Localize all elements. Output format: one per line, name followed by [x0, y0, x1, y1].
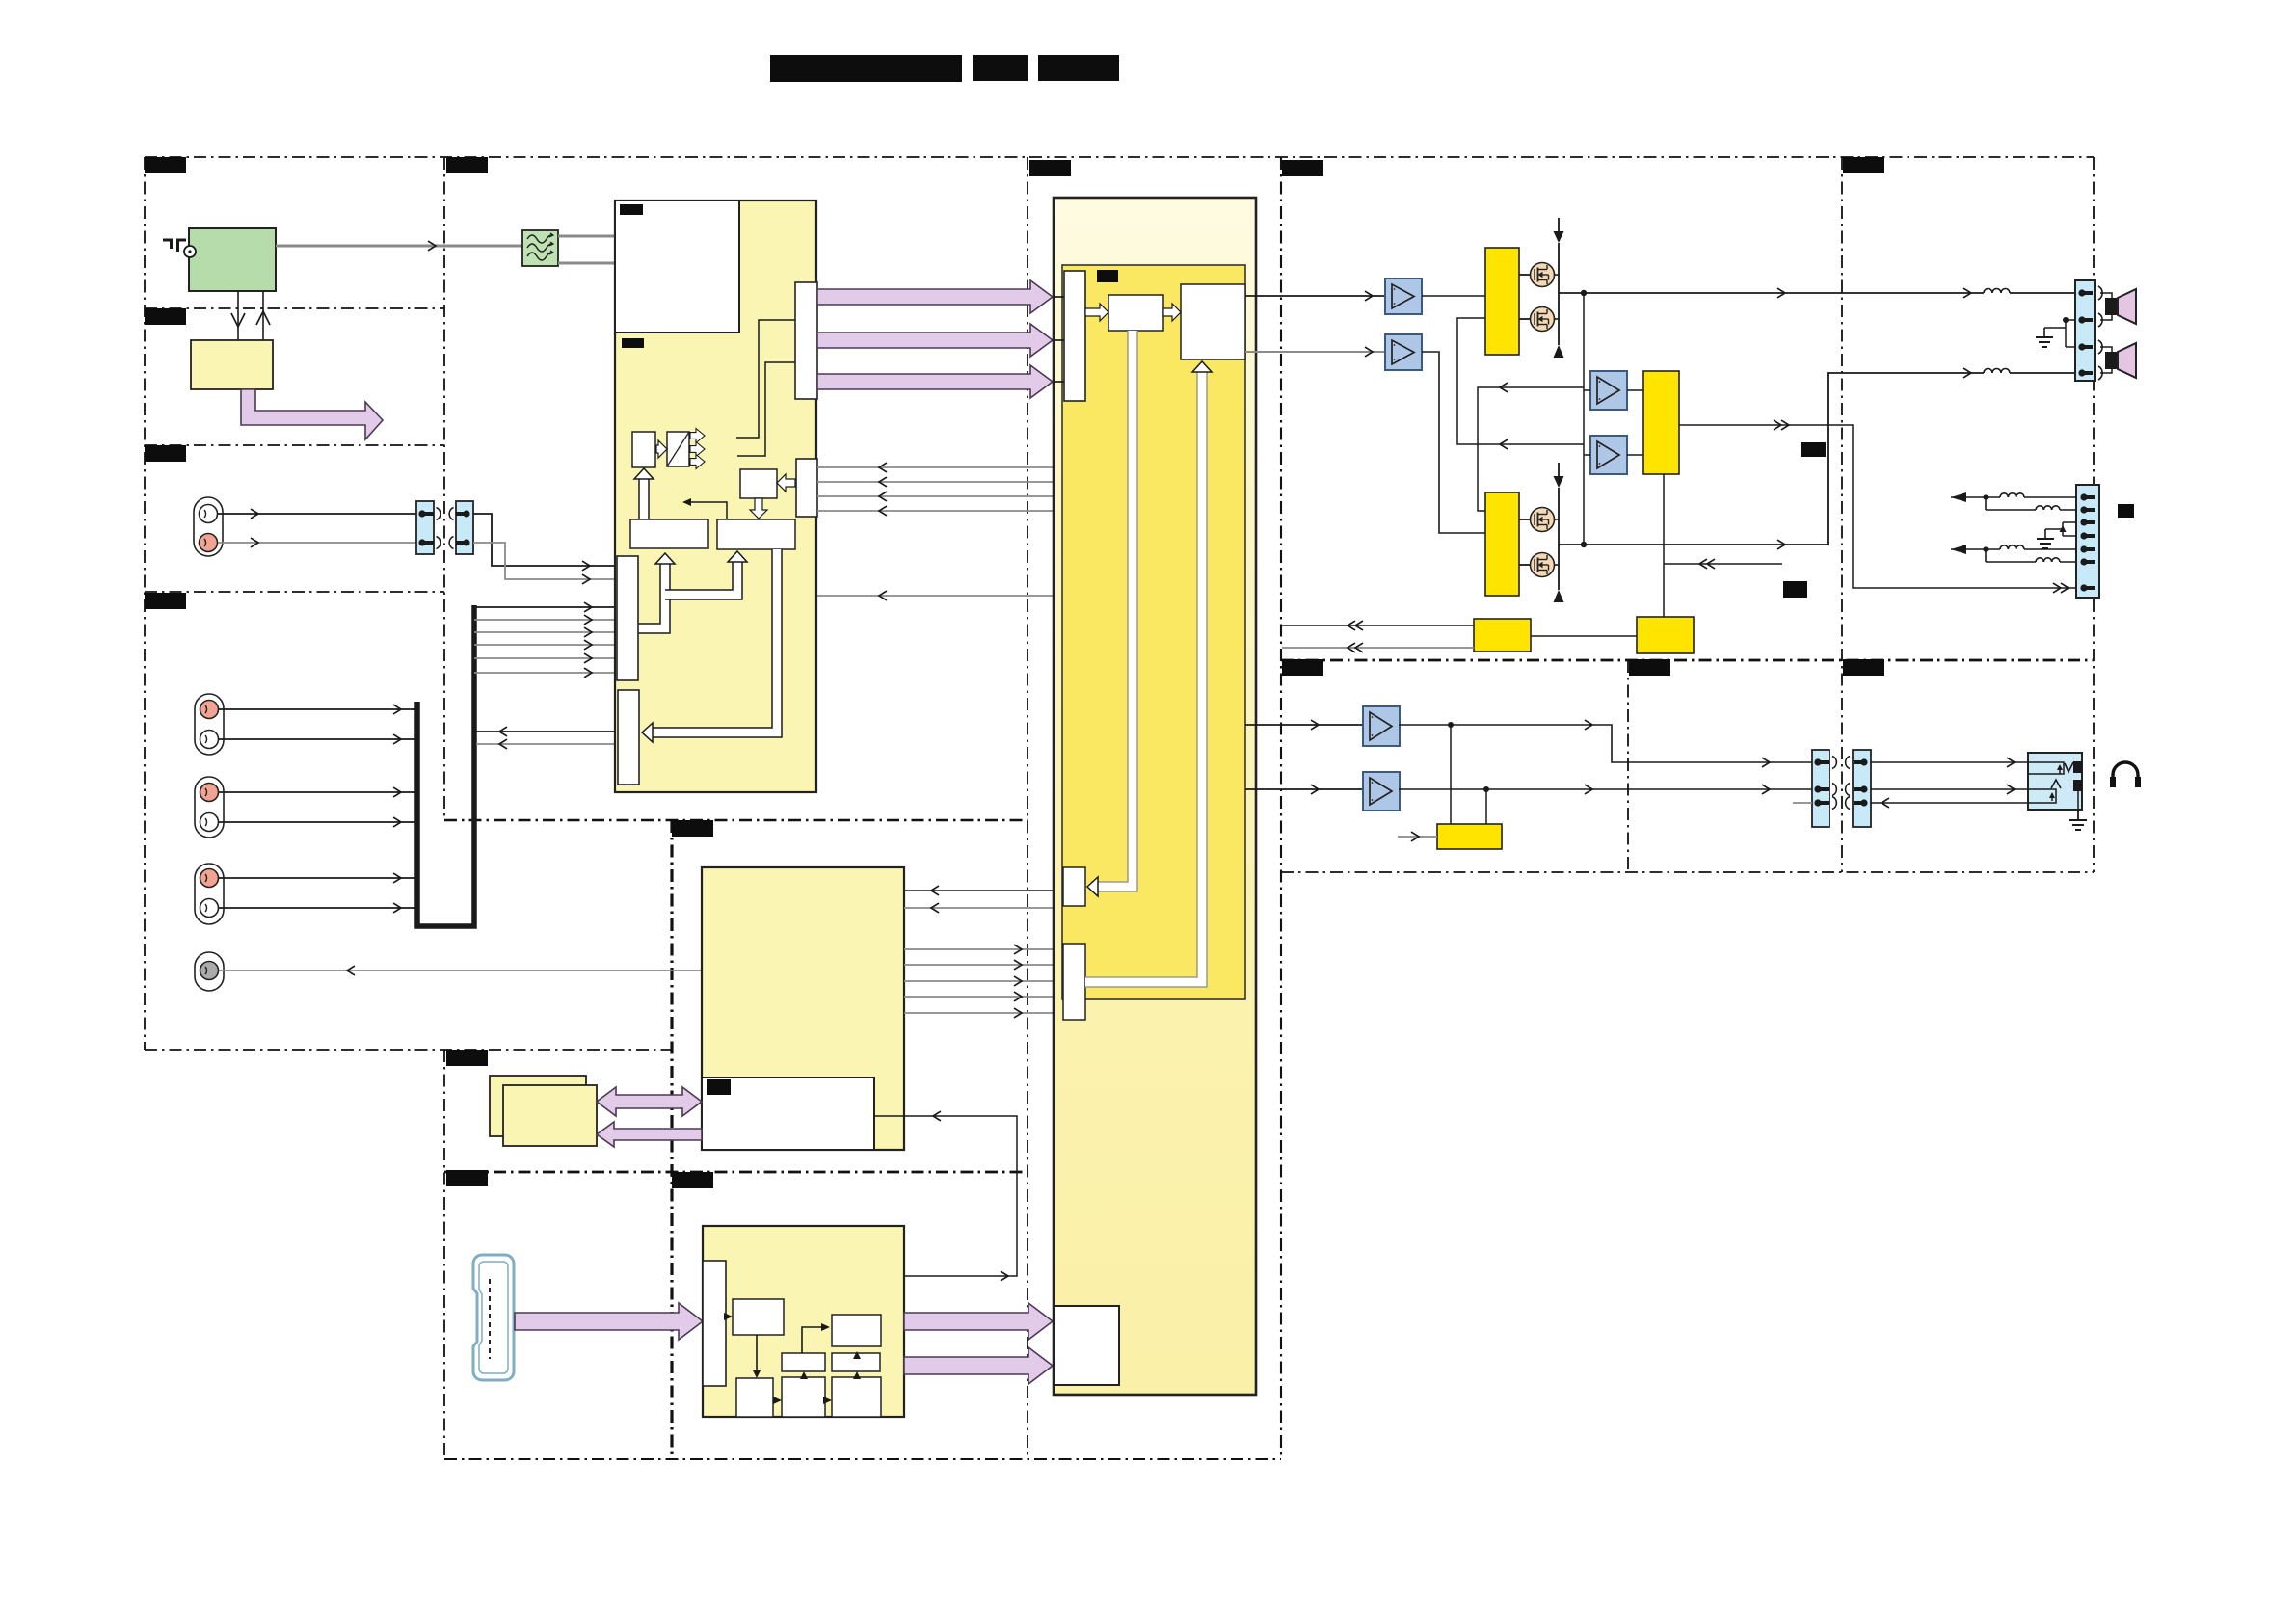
title bar 1 — [770, 55, 962, 82]
board name bar at 463,1089 — [446, 1050, 488, 1066]
board outline: inputs bottom y1089 — [145, 1049, 672, 1051]
supply rail 2 — [1558, 463, 1560, 476]
board outline: main bottom y851 — [444, 819, 1028, 821]
I2S purple arrow 3 — [817, 365, 1053, 398]
board outline: top border — [145, 156, 2094, 158]
HDMI box B3 — [782, 1353, 825, 1371]
aux connector plug (blue) — [416, 501, 434, 554]
board name bar at 1330,166 — [1282, 160, 1323, 176]
wires jack pair 3 to bus — [219, 877, 417, 879]
hp mute control wire — [1398, 836, 1437, 838]
bandpass filter (green) — [522, 230, 558, 266]
bus E up to ADC — [638, 474, 650, 519]
arrow strip to modulator — [1085, 304, 1108, 321]
wire opamp R to gate driver 2 — [1422, 352, 1485, 533]
wires uC to amp control — [904, 948, 1054, 950]
control box (yellow) — [191, 340, 273, 389]
board outline: ctrl box bottom — [145, 444, 444, 446]
I2S out connector strip — [795, 282, 817, 399]
MOSFET low side 1 — [1519, 318, 1531, 320]
headphone feed wires — [1245, 724, 1362, 726]
wire to protection label — [1664, 563, 1782, 565]
I2S purple arrow 2 — [817, 324, 1053, 357]
wire mono output from uC — [219, 970, 702, 971]
board outline: x1911 — [1841, 157, 1843, 872]
HDMI receiver block (pale yellow) — [703, 1226, 904, 1417]
label bar in white box — [620, 204, 643, 215]
board name bar at 463,1214 — [446, 1170, 488, 1186]
speaker R wiring — [2100, 347, 2112, 352]
board name bar at 150,462 — [145, 445, 186, 462]
wire protection1 to protection2 — [1531, 635, 1637, 637]
board outline: bottom y1514 — [444, 1458, 1281, 1460]
PWM input connector strip — [1064, 271, 1085, 401]
wire socket to jack L — [1871, 761, 2028, 763]
PWM out R wire — [1245, 351, 1385, 353]
headphone icon — [2113, 762, 2138, 783]
mixer box F — [717, 519, 795, 549]
wire protection 1 lower — [1282, 647, 1474, 649]
wires jack pair 2 to bus — [219, 791, 417, 793]
line out group 1 — [1951, 496, 1984, 498]
ADC input connector strip G — [617, 556, 638, 680]
hp wire R to connector — [1399, 788, 1812, 790]
I2S stub wires into amp — [1054, 296, 1064, 298]
bus control connector up to logic — [1085, 368, 1202, 982]
buffer op-amp L — [1385, 279, 1422, 314]
wire connector to DAC area 1 — [736, 320, 795, 438]
DAC output arrows — [690, 429, 705, 443]
title bar 2 — [973, 55, 1028, 81]
HDMI core box — [832, 1315, 881, 1346]
arrow ADC to DAC — [656, 440, 667, 458]
board outline: aux box bottom — [145, 591, 444, 593]
speaker ground link — [2063, 317, 2069, 323]
PWM out L wire — [1245, 295, 1385, 297]
wire tuner to bandpass filter — [276, 245, 522, 248]
connector mating — [437, 508, 441, 520]
protection box 1 (yellow) — [1474, 619, 1531, 652]
aux connector socket (blue) — [456, 501, 473, 554]
float label bar 3 — [2118, 504, 2134, 518]
wire into sense op-amp 1 — [1584, 389, 1590, 391]
monitor bottom wire — [1663, 474, 1665, 617]
bus F down to rec connector — [648, 549, 777, 732]
board outline: x461 upper — [443, 157, 445, 820]
wire amp to DSP status — [817, 595, 1054, 597]
hp wire L to connector — [1399, 725, 1812, 762]
wire aux R to connector — [218, 542, 416, 544]
board name bar at 150,163 — [145, 157, 186, 173]
HDMI box B5 — [736, 1378, 773, 1417]
board name bar at 463,163 — [446, 157, 488, 173]
ADC box — [632, 432, 655, 467]
speaker connector strip — [2075, 280, 2095, 381]
board outline: amp section y685 — [1281, 659, 2094, 662]
input RCA jack pair 3 — [195, 864, 224, 924]
hp mute box (yellow) — [1437, 824, 1502, 849]
wire into sense op-amp 2 — [1584, 454, 1590, 456]
board outline: x697 heavy — [670, 820, 673, 1459]
wire protection 1 upper — [1282, 625, 1474, 626]
speaker L — [2105, 298, 2118, 315]
float label bar 2 — [1783, 581, 1807, 598]
jack ground — [2077, 810, 2079, 820]
memory data bus arrow (bidirectional purple) — [597, 1087, 702, 1116]
board outline: left border x150 — [144, 157, 146, 1050]
wire pair filter to IF decoder — [558, 235, 615, 238]
sense op-amp 1 — [1590, 371, 1627, 410]
line out group 2 — [1951, 548, 1984, 550]
board outline: y1216 — [444, 1171, 1028, 1174]
title bar 3 — [1038, 55, 1119, 81]
board outline: x1329 — [1280, 157, 1282, 1459]
bus fan wires to DSP ADC connector — [474, 606, 617, 608]
board name bar at 1330,684 — [1282, 659, 1323, 676]
feedback wire channel R — [1457, 318, 1584, 444]
MOSFET low side 2 — [1519, 564, 1531, 566]
microcontroller block (pale yellow) — [702, 867, 904, 1150]
wire tuner to control box (down) — [237, 291, 239, 340]
radio decoder white box — [615, 200, 739, 333]
hp mating — [1832, 757, 1836, 769]
line output connector strip — [2076, 485, 2099, 598]
bus modulator down to feedback box — [1091, 331, 1133, 887]
memory address arrow (purple, left) — [597, 1122, 702, 1147]
MOSFET high side 2 — [1519, 519, 1531, 520]
board name bar at 150,615 — [145, 593, 186, 609]
PWM modulator box — [1108, 295, 1163, 331]
class-D controller block (gradient yellow) — [1054, 198, 1256, 1395]
supply rail 1 — [1558, 218, 1560, 231]
HDMI receptacle — [473, 1255, 514, 1380]
HDMI eq box — [733, 1299, 784, 1335]
current monitor (yellow) — [1643, 371, 1679, 474]
wire aux L to DSP — [473, 514, 615, 566]
board name bar at 1068,166 — [1029, 160, 1071, 176]
headphone op-amp L — [1363, 706, 1400, 746]
hp connector socket — [1853, 750, 1871, 827]
board name bar at 1912,163 — [1843, 157, 1884, 173]
speaker L wiring — [2100, 293, 2112, 298]
memory chip 2 (yellow) — [503, 1085, 597, 1146]
board name bar at 697,1216 — [672, 1172, 713, 1188]
HDMI purple arrow to receiver — [515, 1303, 703, 1340]
board outline: x1689 — [1627, 660, 1629, 872]
wire jack detect — [1871, 802, 2028, 804]
float label bar 1 — [1801, 442, 1826, 457]
board outline: hp section bottom y905 — [1281, 871, 2094, 873]
power bus arrow (purple, L-shape) — [241, 389, 383, 439]
gate driver 2 (yellow) — [1485, 492, 1519, 596]
wire opamp L to gate driver 1 — [1422, 295, 1485, 297]
SRC box — [740, 469, 777, 498]
rec out connector strip H — [618, 690, 639, 785]
hp gnd stub — [1793, 802, 1812, 804]
wire aux L to connector — [218, 513, 416, 515]
wire sense2 to monitor — [1627, 454, 1643, 456]
aux RCA jack pair — [194, 497, 223, 556]
gate driver 1 (yellow) — [1485, 248, 1519, 355]
ground symbol speakers — [2043, 328, 2045, 337]
HDMI audio in box — [1054, 1306, 1119, 1385]
antenna symbol — [163, 239, 173, 242]
PWM logic box — [1181, 284, 1245, 359]
wires amp to DSP feedback — [817, 466, 1054, 468]
speaker output wire L — [1559, 292, 1984, 294]
DSP / audio processor block (pale yellow) — [615, 200, 816, 792]
line out ground — [2063, 521, 2076, 523]
control connector on left edge — [1063, 944, 1085, 1020]
MOSFET high side 1 — [1519, 274, 1531, 276]
FM tuner module (green) — [189, 228, 276, 291]
wire connector to DAC area 2 — [737, 362, 795, 456]
MOSFET drain stubs — [1554, 274, 1559, 276]
input RCA jack pair 1 — [195, 694, 224, 755]
wires jack pair 1 to bus — [219, 708, 417, 710]
uC white box — [702, 1078, 874, 1150]
headphone op-amp R — [1363, 772, 1400, 811]
speaker R — [2105, 352, 2118, 369]
clock tap wire — [688, 502, 727, 519]
wire aux R to DSP — [473, 543, 615, 579]
board outline: tuner box bottom — [145, 307, 444, 309]
HDMI box B6 — [782, 1377, 825, 1417]
HDMI audio purple arrow 2 — [904, 1347, 1053, 1384]
HDMI audio purple arrow 1 — [904, 1303, 1053, 1340]
rec-out wires DSP to bus — [476, 731, 618, 732]
arrow modulator to logic — [1163, 304, 1181, 321]
label bar in uC box — [707, 1079, 731, 1095]
input RCA jack pair 2 — [195, 777, 224, 838]
bus G to E — [638, 561, 665, 628]
label bar in PWM section — [1097, 270, 1118, 282]
wire socket to jack R — [1871, 788, 2028, 790]
HDMI box B4 — [832, 1353, 880, 1371]
label bar in DSP — [622, 338, 644, 348]
mono output RCA jack — [195, 952, 224, 991]
board name bar at 1690,684 — [1629, 659, 1670, 676]
analog input bus (thick) — [417, 605, 474, 926]
board outline: x461 lower — [443, 1050, 445, 1459]
hp connector plug — [1812, 750, 1829, 827]
feedback box on left edge — [1063, 867, 1085, 906]
buffer op-amp R — [1385, 334, 1422, 370]
wires amp to uC — [904, 890, 1054, 891]
hp mute taps — [1450, 725, 1452, 825]
protection box 2 (yellow) — [1637, 617, 1694, 653]
bus G to F — [665, 559, 737, 595]
board name bar at 150,320 — [145, 308, 186, 325]
DAC box with diagonal — [667, 432, 689, 466]
HDMI connector strip — [703, 1261, 726, 1386]
memory chip 1 (yellow) — [490, 1076, 586, 1136]
board name bar at 1912,684 — [1843, 659, 1884, 676]
monitor output wire to connector pin 7 — [1679, 425, 2075, 588]
board outline: x1066 — [1027, 157, 1028, 1459]
mixer box E — [630, 519, 708, 548]
HDMI box B7 — [832, 1377, 881, 1417]
inner PWM section (bright yellow) — [1062, 265, 1245, 999]
wire control box to tuner (up) — [262, 291, 264, 340]
HDMI internal arrows — [724, 1313, 733, 1320]
feedback wire channel L — [1583, 293, 1585, 545]
board name bar at 697,851 — [672, 820, 713, 837]
wire sense1 to monitor — [1627, 389, 1643, 391]
sense op-amp 2 — [1590, 436, 1627, 474]
feedback connector strip D — [796, 459, 817, 517]
I2S purple arrow 1 — [817, 280, 1053, 313]
headphone jack (blue) — [2028, 753, 2082, 810]
arrow from feedback connector to SRC — [777, 474, 795, 492]
board outline: right border x2172 — [2093, 157, 2095, 872]
arrow SRC down to mixer — [750, 498, 767, 519]
speaker output wire R — [1559, 373, 1984, 545]
wire HDMI rx to uC — [857, 1116, 1017, 1315]
